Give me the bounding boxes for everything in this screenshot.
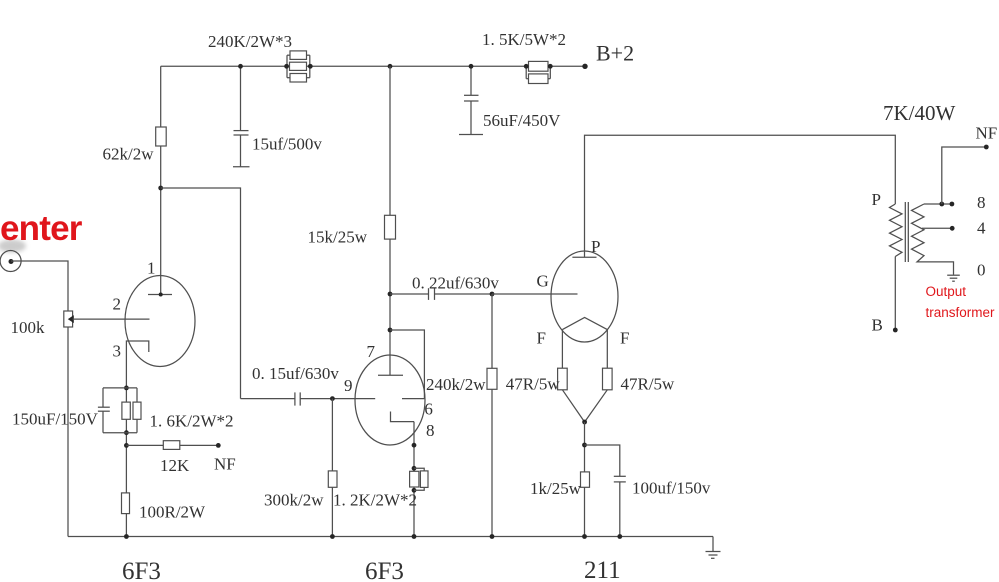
capacitor 100uf/150v <box>585 445 711 537</box>
svg-text:0: 0 <box>977 261 986 280</box>
svg-text:G: G <box>537 272 549 291</box>
wire to 211 grid <box>492 293 578 295</box>
tube V2 screen pin 6 <box>402 399 433 419</box>
resistor 62k/2w <box>103 127 167 164</box>
svg-text:15uf/500v: 15uf/500v <box>252 135 322 154</box>
ground output transformer <box>947 275 960 281</box>
svg-text:7: 7 <box>367 342 376 361</box>
transformer primary winding P <box>872 190 903 257</box>
svg-text:6: 6 <box>424 400 433 419</box>
node 15k tap on rail <box>388 64 393 69</box>
svg-text:9: 9 <box>344 376 353 395</box>
wire 211 cathode return <box>584 422 586 537</box>
svg-text:B+2: B+2 <box>596 41 634 66</box>
svg-text:B: B <box>872 316 883 335</box>
svg-text:150uF/150V: 150uF/150V <box>12 410 99 429</box>
svg-text:P: P <box>872 190 881 209</box>
svg-text:47R/5w: 47R/5w <box>621 375 676 394</box>
tube 211 filament <box>537 318 630 369</box>
node B+2 terminal <box>582 41 634 70</box>
tube V2 plate pin 7 <box>367 342 404 375</box>
capacitor 15uf/500v <box>233 64 322 167</box>
capacitor 56uF/450V <box>459 64 561 135</box>
svg-text:1. 2K/2W*2: 1. 2K/2W*2 <box>333 491 417 510</box>
capacitor 0.15uf/630v <box>241 364 340 406</box>
wire 211 plate to transformer <box>585 135 896 257</box>
wire B+ top rail <box>161 65 585 67</box>
tube V2 grid pin 9 <box>300 376 375 399</box>
svg-text:300k/2w: 300k/2w <box>264 491 324 510</box>
wire input to ground rail <box>11 261 68 537</box>
svg-text:transformer: transformer <box>926 305 996 320</box>
node cathode NF tap <box>124 443 129 448</box>
cathode network rectangle with capacitor 150uF/150V <box>12 386 137 436</box>
tube 6F3 triode V1 envelope <box>125 276 195 367</box>
wire V2 cathode lead <box>413 422 415 537</box>
svg-text:Output: Output <box>926 284 967 299</box>
wire secondary tap 4 <box>922 219 986 238</box>
input jack <box>0 240 26 272</box>
node grid junction V2 <box>330 396 335 401</box>
svg-text:P: P <box>591 237 600 256</box>
tube 6F3 pentode V2 envelope <box>355 355 425 445</box>
svg-text:240K/2W*3: 240K/2W*3 <box>208 32 292 51</box>
wire screen loop to pin 6 <box>390 330 424 399</box>
svg-text:47R/5w: 47R/5w <box>506 375 561 394</box>
wire 15k plate feed vertical <box>389 66 391 375</box>
svg-text:3: 3 <box>113 342 122 361</box>
wire NF feedback <box>942 124 997 205</box>
svg-text:240k/2w: 240k/2w <box>426 375 486 394</box>
wire ground rail bottom <box>68 536 713 538</box>
node 211 grid junction <box>490 292 495 297</box>
resistor 47R/5w left <box>506 368 567 393</box>
svg-text:1. 5K/5W*2: 1. 5K/5W*2 <box>482 30 566 49</box>
node screen loop tap <box>388 328 393 333</box>
capacitor 0.22uf/630v <box>390 274 499 300</box>
svg-text:NF: NF <box>976 124 998 143</box>
svg-text:6F3: 6F3 <box>122 558 161 582</box>
tube 211 envelope <box>551 251 618 342</box>
svg-text:6F3: 6F3 <box>365 558 404 582</box>
wire V1 cathode lead <box>125 388 127 537</box>
svg-text:8: 8 <box>426 421 435 440</box>
svg-text:1k/25w: 1k/25w <box>530 479 582 498</box>
resistor 240k/2w grid leak <box>426 294 497 537</box>
resistor 1.2K/2W*2 pair <box>333 466 428 510</box>
svg-text:NF: NF <box>214 455 236 474</box>
svg-text:0. 15uf/630v: 0. 15uf/630v <box>252 364 339 383</box>
node NF terminal <box>214 443 236 474</box>
svg-text:100k: 100k <box>11 318 46 337</box>
svg-text:56uF/450V: 56uF/450V <box>483 111 561 130</box>
resistor 100R/2W <box>122 493 207 522</box>
svg-text:1: 1 <box>147 259 156 278</box>
transformer core <box>905 202 908 262</box>
svg-text:F: F <box>620 329 629 348</box>
potentiometer 100k <box>11 311 74 337</box>
svg-text:F: F <box>537 329 546 348</box>
svg-text:4: 4 <box>977 219 986 238</box>
svg-text:7K/40W: 7K/40W <box>883 101 956 125</box>
ground main <box>706 537 721 559</box>
svg-text:0. 22uf/630v: 0. 22uf/630v <box>412 274 499 293</box>
svg-text:62k/2w: 62k/2w <box>103 145 155 164</box>
resistor 47R/5w right <box>603 368 676 393</box>
svg-text:211: 211 <box>584 557 621 582</box>
wire secondary tap 0 <box>922 261 986 280</box>
resistor 15k/25w <box>308 215 396 246</box>
svg-text:8: 8 <box>977 193 986 212</box>
svg-text:12K: 12K <box>160 456 190 475</box>
wire primary to B <box>872 257 898 335</box>
wire from node to coupling cap column <box>161 188 241 399</box>
resistor 12K <box>160 441 190 475</box>
tube V2 cathode pin 8 <box>391 412 435 441</box>
resistor 240K/2W*3 triple parallel <box>208 32 313 82</box>
svg-text:enter: enter <box>0 209 83 248</box>
svg-text:1. 6K/2W*2: 1. 6K/2W*2 <box>150 412 234 431</box>
svg-text:100R/2W: 100R/2W <box>139 503 206 522</box>
svg-text:15k/25w: 15k/25w <box>308 228 368 247</box>
label Output transformer <box>926 284 996 320</box>
tube 211 plate P <box>572 237 600 257</box>
resistor 1.5K/5W*2 double parallel <box>482 30 566 84</box>
tube V1 plate pin 1 <box>147 259 172 297</box>
resistor 1.6K/2W*2 pair <box>122 402 234 430</box>
svg-text:100uf/150v: 100uf/150v <box>632 479 711 498</box>
wire filament V join <box>562 390 607 425</box>
wire NF branch <box>126 444 218 446</box>
node junction at 62k line y188 <box>158 186 163 191</box>
wire 62k branch vertical <box>160 66 162 294</box>
tube V1 cathode pin 3 <box>113 341 149 388</box>
resistor 1k/25w <box>530 472 590 498</box>
wire secondary tap 8 <box>924 193 986 212</box>
transformer secondary winding <box>912 204 925 262</box>
resistor 300k/2w <box>264 399 337 537</box>
node rail junctions <box>124 534 622 539</box>
node 0.22uf tap <box>388 292 393 297</box>
svg-text:2: 2 <box>113 295 122 314</box>
wire pot wiper to V1 grid <box>73 318 150 320</box>
